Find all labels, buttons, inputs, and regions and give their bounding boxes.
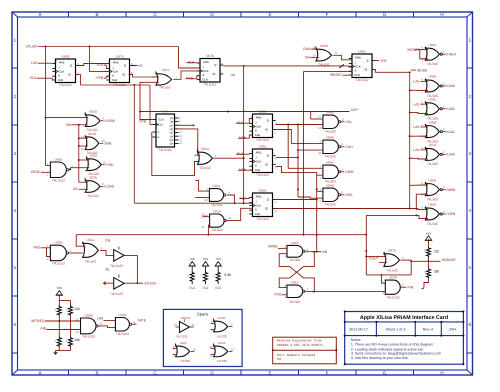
svg-text:/LOAD: /LOAD [104,185,115,189]
svg-text:K: K [203,73,205,77]
svg-text:LA8: LA8 [97,316,103,320]
svg-text:74LS32: 74LS32 [217,359,228,363]
svg-text:330: 330 [75,338,81,342]
svg-text:QE: QE [170,132,174,135]
svg-text:13: 13 [75,330,79,334]
svg-text:10: 10 [318,151,322,155]
svg-text:/YFB: /YFB [139,120,147,124]
svg-text:RA0: RA0 [303,47,310,51]
svg-text:74LS132: 74LS132 [386,296,399,300]
svg-text:QF: QF [170,135,174,138]
svg-text:74LS32: 74LS32 [318,63,330,67]
svg-text:/S4: /S4 [305,55,310,59]
svg-text:PIN: PIN [408,285,414,289]
svg-text:/CLR: /CLR [158,119,164,122]
svg-text:Rev. A: Rev. A [423,327,434,331]
svg-text:+5V: +5V [189,257,194,261]
svg-text:220: 220 [75,307,81,311]
svg-text:12: 12 [81,147,85,151]
svg-text:10: 10 [193,348,197,352]
svg-text:74LS00: 74LS00 [324,154,336,158]
svg-text:K: K [255,128,257,132]
svg-text:74LS132: 74LS132 [82,335,95,339]
svg-text:U81a: U81a [291,281,299,285]
svg-text:n/c: n/c [139,64,144,68]
svg-text:CLR: CLR [112,78,118,82]
svg-text:/YGRB: /YGRB [104,119,115,123]
svg-text:CLR: CLR [202,77,208,81]
svg-text:5: 5 [14,265,17,270]
svg-text:U84a: U84a [326,111,334,115]
svg-text:H: H [440,370,443,375]
svg-text:B: B [95,12,98,17]
svg-text:74LS05: 74LS05 [427,162,439,166]
svg-text:U83e: U83e [119,313,127,317]
svg-text:F: F [326,370,329,375]
svg-text:U80a: U80a [55,241,63,245]
svg-text:/WTE: /WTE [138,319,147,323]
svg-text:/YFB: /YFB [96,76,104,80]
svg-text:/YRD: /YRD [105,163,114,167]
svg-text:U60c: U60c [429,203,437,207]
svg-text:U81d: U81d [88,132,96,136]
svg-text:12: 12 [174,323,178,327]
svg-text:PRE: PRE [355,55,361,59]
svg-text:U67a: U67a [116,54,124,58]
svg-text:Ru5: Ru5 [215,286,221,290]
svg-text:/DL: /DL [73,187,78,191]
svg-text:12: 12 [209,353,213,357]
svg-text:PRE: PRE [113,60,119,64]
svg-text:B: B [95,370,98,375]
svg-text:QG: QG [169,139,173,142]
svg-text:12: 12 [75,317,79,321]
svg-text:2: 2 [14,94,17,99]
svg-text:11: 11 [335,51,338,55]
svg-text:LA4: LA4 [413,148,419,152]
svg-text:U80b: U80b [428,75,436,79]
svg-text:74LS112: 74LS112 [256,138,269,142]
svg-text:74LS00: 74LS00 [289,300,301,304]
svg-text:/HB: /HB [40,326,46,330]
svg-text:12: 12 [201,225,205,229]
svg-text:U81f: U81f [429,143,436,147]
svg-text:/YFB: /YFB [274,293,282,297]
svg-text:LA1: LA1 [413,80,419,84]
svg-text:CLR: CLR [58,78,64,82]
svg-text:U83b: U83b [89,176,97,180]
svg-text:3.3K: 3.3K [224,273,232,277]
svg-text:Ru1: Ru1 [189,286,195,290]
svg-text:/OEL: /OEL [345,193,353,197]
svg-text:10: 10 [351,55,355,59]
svg-text:CLR: CLR [255,133,261,137]
svg-text:74LS00: 74LS00 [211,203,223,207]
svg-text:+5V: +5V [215,257,220,261]
svg-text:U82a: U82a [201,147,209,151]
svg-text:F: F [326,12,329,17]
svg-text:11: 11 [192,323,195,327]
svg-text:6: 6 [469,322,472,327]
svg-text:74LS132: 74LS132 [52,262,65,266]
svg-text:U84b: U84b [326,136,334,140]
svg-text:LSA: LSA [31,61,38,65]
svg-text:+5V: +5V [57,286,62,290]
svg-text:RAS: RAS [34,246,42,250]
svg-text:CLR: CLR [255,168,261,172]
svg-text:U83a: U83a [89,110,97,114]
svg-text:13: 13 [180,316,184,320]
svg-text:74LS112: 74LS112 [59,83,72,87]
svg-text:K: K [255,163,257,167]
svg-text:E: E [268,370,271,375]
svg-text:UA5b: UA5b [218,316,226,320]
svg-text:74LS112: 74LS112 [356,78,369,82]
svg-text:/1B: /1B [105,239,111,243]
svg-text:CKH: CKH [345,145,353,149]
svg-text:U85d: U85d [85,313,93,317]
svg-text:E: E [268,12,271,17]
svg-text:Reverse Engineered from:: Reverse Engineered from: [277,339,323,343]
svg-text:KA00: KA00 [446,84,454,88]
svg-text:PRE: PRE [59,60,65,64]
svg-text:1: 1 [14,38,17,43]
svg-text:Apple X/Lisa PRiAM Interface C: Apple X/Lisa PRiAM Interface Card [360,315,448,321]
svg-text:U65a: U65a [259,144,267,148]
svg-text:11: 11 [100,322,103,326]
svg-text:K: K [355,68,357,72]
svg-text:10: 10 [204,198,208,202]
svg-text:+5V: +5V [426,231,431,235]
svg-text:Part Numbers Skipped: Part Numbers Skipped [277,353,315,357]
svg-text:220: 220 [434,249,440,253]
svg-text:U85a: U85a [55,157,63,161]
svg-text:KA02: KA02 [446,130,454,134]
svg-text:CKP: CKP [351,108,359,112]
svg-text:K: K [58,73,60,77]
svg-text:260684-2 PEI 2170 090071: 260684-2 PEI 2170 090071 [277,343,323,347]
svg-text:U87b: U87b [389,276,397,280]
svg-text:74LS112: 74LS112 [204,82,217,86]
svg-text:11: 11 [210,345,213,349]
svg-text:PL0: PL0 [30,76,36,80]
svg-text:U66a: U66a [358,49,366,53]
svg-text:1: 1 [469,38,472,43]
svg-text:UB1c: UB1c [180,341,188,345]
svg-text:PRE: PRE [256,150,262,154]
svg-text:74LS05: 74LS05 [427,197,439,201]
svg-text:74LS02: 74LS02 [180,359,191,363]
svg-text:/WTREQ: /WTREQ [31,319,45,323]
svg-text:CPUCK: CPUCK [26,45,39,49]
svg-text:Ru2: Ru2 [203,286,209,290]
svg-text:K: K [112,73,114,77]
svg-text:74LS00: 74LS00 [324,129,336,133]
svg-text:74LS32: 74LS32 [87,194,99,198]
svg-text:QC: QC [170,124,174,127]
svg-text:/RESET: /RESET [330,73,342,77]
svg-text:SHB: SHB [104,142,112,146]
svg-text:74LS125: 74LS125 [110,292,123,296]
svg-text:4: 4 [469,208,472,213]
svg-text:JDH: JDH [449,327,457,331]
svg-text:74LS00: 74LS00 [324,202,336,206]
svg-text:74LS05: 74LS05 [427,62,439,66]
svg-text:QD: QD [170,128,174,131]
svg-text:74LS112: 74LS112 [256,173,269,177]
svg-text:CLR: CLR [255,212,261,216]
svg-text:U83d: U83d [320,44,328,48]
svg-text:74LS132: 74LS132 [116,332,129,336]
svg-text:QB: QB [170,121,174,124]
svg-text:/HRST: /HRST [446,52,456,56]
svg-text:/0L: /0L [105,267,110,271]
svg-text:+5V: +5V [203,257,208,261]
svg-text:/WWB: /WWB [268,244,278,248]
svg-text:U84d: U84d [326,184,334,188]
svg-text:74LS02: 74LS02 [159,86,171,90]
svg-text:U63a: U63a [259,188,267,192]
svg-text:10: 10 [85,169,89,173]
svg-text:84: 84 [277,357,281,361]
svg-text:U67b: U67b [206,54,214,58]
svg-text:U60a: U60a [428,43,436,47]
svg-text:PRE: PRE [256,115,262,119]
svg-text:n/c: n/c [231,73,236,77]
svg-text:13: 13 [231,348,235,352]
svg-text:U63b: U63b [62,54,70,58]
svg-text:74LS00: 74LS00 [289,258,301,262]
svg-text:13: 13 [201,213,205,217]
svg-text:H: H [440,12,443,17]
svg-text:HDBUSP: HDBUSP [442,258,457,262]
svg-text:10: 10 [54,60,58,64]
svg-text:5: 5 [469,265,472,270]
svg-text:G: G [383,12,387,17]
svg-text:LA3: LA3 [413,125,419,129]
svg-text:74LS05: 74LS05 [427,222,439,226]
svg-text:/DTACK: /DTACK [144,281,157,285]
svg-text:/YWR: /YWR [446,212,455,216]
svg-text:U80c: U80c [429,98,437,102]
svg-text:Sheet 1 of 2: Sheet 1 of 2 [386,327,406,331]
svg-text:B: B [158,136,160,139]
svg-text:3: 3 [469,151,472,156]
svg-text:/LINK: /LINK [446,153,455,157]
svg-text:74LS132: 74LS132 [52,178,65,182]
svg-text:4. Use this drawing at your ow: 4. Use this drawing at your own risk [351,356,408,360]
svg-text:11: 11 [229,216,232,220]
svg-text:2: 2 [469,94,472,99]
svg-text:12: 12 [318,114,322,118]
svg-text:U83c: U83c [90,154,98,158]
svg-text:3: 3 [14,151,17,156]
svg-text:74LS125: 74LS125 [175,335,187,339]
svg-text:CLK: CLK [158,124,163,127]
svg-text:PRE: PRE [203,60,209,64]
svg-text:CKL: CKL [345,120,352,124]
svg-text:U87a: U87a [388,249,396,253]
svg-text:74LS32: 74LS32 [217,335,228,339]
svg-text:LA2: LA2 [413,102,419,106]
svg-text:CLR: CLR [354,73,360,77]
svg-text:QH: QH [170,143,174,146]
svg-text:PRE: PRE [256,194,262,198]
svg-text:74LS05: 74LS05 [386,268,398,272]
svg-text:POUT: POUT [369,257,378,261]
svg-text:74LS32: 74LS32 [199,166,211,170]
svg-text:U84c: U84c [326,161,334,165]
svg-text:QA: QA [170,117,174,120]
svg-text:READ: READ [31,170,41,174]
svg-text:/BUSE: /BUSE [417,68,428,72]
svg-text:U81b: U81b [291,241,299,245]
svg-text:UA5d: UA5d [218,341,226,345]
svg-text:13: 13 [313,54,317,58]
svg-text:3. Send corrections to: lisu: 3. Send corrections to: lisug@SigmaSeven… [351,352,441,356]
svg-text:U80d: U80d [428,120,436,124]
svg-text:11: 11 [341,117,344,121]
svg-text:/WRB: /WRB [446,188,456,192]
svg-text:U81d: U81d [213,209,221,213]
svg-text:2011-09-17: 2011-09-17 [349,327,368,331]
svg-text:Spare: Spare [197,312,209,317]
svg-text:4: 4 [14,208,17,213]
svg-text:U81c: U81c [162,68,170,72]
svg-text:6: 6 [14,322,17,327]
svg-text:Notes:: Notes: [351,338,361,342]
svg-text:74LS00: 74LS00 [211,228,223,232]
svg-text:74LS112: 74LS112 [256,217,269,221]
svg-text:U81a: U81a [87,238,95,242]
svg-text:1. There are NO 4-way connecti: 1. There are NO 4-way connections on thi… [351,343,433,347]
svg-text:330: 330 [434,269,440,273]
svg-text:A: A [158,131,160,134]
svg-text:/S8: /S8 [66,123,71,127]
svg-text:U60b: U60b [428,178,436,182]
svg-text:74LS164: 74LS164 [158,148,171,152]
svg-text:K: K [255,207,257,211]
svg-text:74LS02: 74LS02 [85,259,97,263]
svg-text:/OEB: /OEB [345,170,354,174]
svg-text:74LS125: 74LS125 [110,264,123,268]
svg-text:U81e: U81e [213,184,221,188]
svg-text:G: G [383,370,387,375]
svg-text:KA01: KA01 [446,107,454,111]
svg-text:11: 11 [81,135,84,139]
svg-text:UC1d: UC1d [183,316,191,320]
svg-text:AB: AB [323,250,328,254]
svg-text:13: 13 [318,126,322,130]
svg-text:YFB: YFB [380,59,387,63]
svg-text:13: 13 [102,139,106,143]
svg-text:12: 12 [313,45,317,49]
